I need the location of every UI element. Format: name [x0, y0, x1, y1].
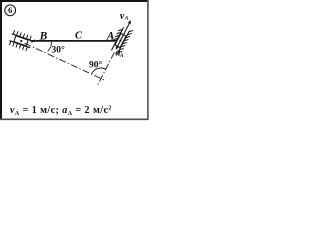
svg-text:6: 6: [8, 5, 12, 15]
border frame top: [0, 0, 149, 2]
slider B: [14, 36, 28, 46]
slider B pin: [20, 40, 22, 42]
right guide right wall: [117, 31, 129, 54]
left guide upper wall: [12, 34, 33, 41]
rod B-C-A: [31, 40, 123, 42]
problem number circle: [5, 5, 16, 16]
background: [0, 0, 150, 122]
svg-text:30°: 30°: [52, 45, 66, 56]
velocity vector vA: [121, 22, 131, 41]
dash-dot axis of right guide extended: [98, 53, 115, 85]
left guide lower wall: [9, 41, 30, 48]
svg-text:A: A: [119, 53, 124, 59]
svg-text:A: A: [124, 16, 129, 22]
right guide hatching left side: [114, 29, 123, 39]
slider A: [115, 33, 126, 47]
slider A pin: [119, 39, 121, 41]
90 deg angle arc: [92, 68, 106, 74]
right guide left wall: [111, 27, 123, 50]
svg-text:C: C: [75, 31, 83, 42]
right guide hatching right side: [118, 31, 133, 53]
dash-dot axis of left guide (30 deg line): [25, 43, 107, 81]
svg-text:A: A: [106, 30, 115, 42]
30 deg angle arc: [48, 42, 52, 51]
left guide hatching above: [13, 30, 31, 40]
svg-text:B: B: [39, 31, 48, 43]
svg-text:vA = 1 м/с; aA = 2 м/с2: vA = 1 м/с; aA = 2 м/с2: [10, 105, 112, 117]
acceleration vector aA: [117, 41, 121, 48]
svg-text:90°: 90°: [89, 60, 103, 71]
left guide hatching below: [9, 41, 27, 51]
border frame bottom: [0, 118, 149, 120]
rod end arrowhead at slider: [31, 39, 36, 43]
point C tick: [76, 40, 78, 42]
border frame left: [0, 0, 2, 120]
border frame right: [147, 0, 149, 120]
